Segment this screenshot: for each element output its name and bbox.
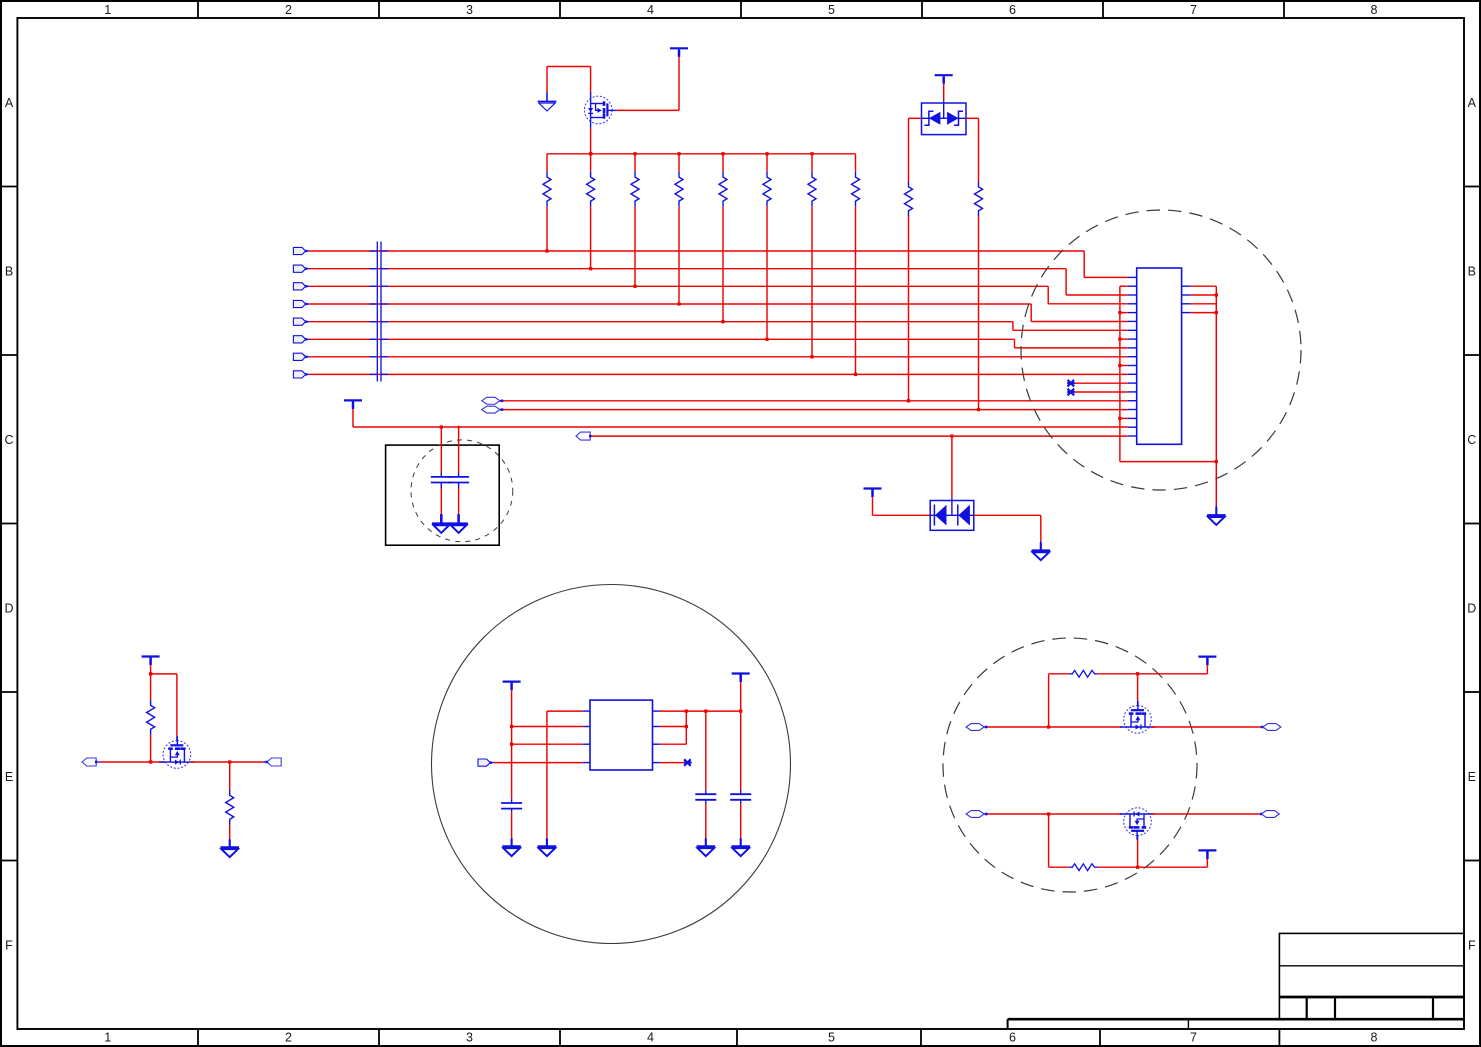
node bus-R2 junction [589,152,592,155]
wire VCC6 down to C3 [511,690,513,803]
node R10-net10 junction [977,408,980,411]
node out-a junction [685,709,688,712]
node Q4gate junction [1136,866,1139,869]
wire net8 P8 to U1 [309,373,1128,375]
wire Q4 gate down [1137,835,1139,867]
node tie junction [685,725,688,728]
wire net12 N3 to U1 [591,435,1128,437]
ic U1 left pins [1128,277,1137,436]
ground GND2 [432,514,451,533]
no-connect U2 pin8 [660,759,692,766]
node VCC6-pin3 junction [510,743,513,746]
connector N7 [1261,811,1279,818]
node Q1-bus junction [589,152,592,155]
wire U2 pin1 to ground [547,711,583,846]
wire N6 branch down [1048,814,1050,867]
wire U2 pin3 to VCC6 [512,743,583,745]
capacitor C3 [501,803,522,809]
ic U1 right pins [1182,286,1191,312]
node VCC5 junction [149,672,152,675]
svg-text:A: A [5,96,14,110]
svg-text:B: B [5,264,13,278]
ground GND4 [1032,542,1051,560]
wire Q4 to N7 [1151,813,1262,816]
svg-text:1: 1 [104,1031,111,1045]
power symbol VCC1 [670,48,688,57]
resistor R1 [543,154,551,251]
connector N1 [482,397,500,404]
svg-text:7: 7 [1190,3,1197,17]
detail circle U1 [1021,210,1301,490]
resistor R10 [975,182,983,410]
wire D2 to ground [974,515,1041,545]
ground GND3 [449,514,468,533]
connector N3 [576,432,590,440]
node R2-net2 junction [589,267,592,270]
wire Q4net to VCC9 [1138,859,1208,867]
node bus-R4 junction [677,152,680,155]
wire U1 ground bus [1120,286,1216,461]
wire net1 P1 to U1 [309,251,1128,277]
capacitor C5 [730,794,751,846]
resistor R8 [852,154,860,375]
resistor R2 [587,154,595,269]
power symbol VCC6 [503,682,521,691]
capacitor C1 [431,427,452,515]
tvs diode D2 [930,501,974,531]
connector P10 [267,758,281,766]
wire U2 pin6 pin7 tie [660,711,686,744]
wire Q1 drain to ground net [547,67,591,94]
svg-text:D: D [1467,601,1476,615]
node R8-net8 junction [854,373,857,376]
wire Q2 to P10 [191,761,267,763]
wire P11 to U2 pin4 [494,762,583,764]
wire R13 to Q3 gate [1137,674,1139,706]
detail circle U2 [432,585,791,944]
resistor R5 [719,154,727,322]
node VCC6-pin2 junction [510,725,513,728]
power symbol VCC7 [732,674,750,683]
wire VCC5 to Q2 gate [151,674,177,741]
svg-text:F: F [1468,938,1476,952]
transistor Q1 [584,92,616,128]
resistor R4 [675,154,683,304]
wire net12 to D2 top [951,436,953,500]
node rightnet junction c [1215,460,1218,463]
wire net9 N1 to U1 [500,400,1128,403]
wire net2 P2 to U1 [309,269,1128,295]
connector N5 [1263,724,1281,731]
wire U2 pin2 to VCC6 [512,726,583,728]
node rightnet junction a [1215,293,1218,296]
node rightnet junction b [1215,311,1218,314]
node bus-R3 junction [633,152,636,155]
node net12-D2 junction [950,434,953,437]
svg-text:7: 7 [1190,1031,1197,1045]
connector P8 [293,371,305,378]
svg-text:1: 1 [104,3,111,17]
connector P3 [293,283,305,290]
ground GND8 [538,838,557,856]
node bus-R5 junction [721,152,724,155]
node bus-R7 junction [810,152,813,155]
connector P7 [293,353,305,360]
resistor R12 [226,762,234,847]
svg-text:B: B [1468,264,1476,278]
ground GND7 [502,838,521,856]
wire VCC8 to Q3 gate net [1138,665,1208,674]
node R9-net9 junction [907,399,910,402]
svg-text:C: C [1467,433,1476,447]
connector N2 [482,406,500,413]
power symbol VCC8 [1198,657,1216,666]
connector P9 [82,758,96,766]
svg-text:A: A [1468,96,1477,110]
resistor R9 [905,182,913,401]
wire VCC1 to Q1 gate [617,57,680,111]
ground GND6 [220,839,239,857]
svg-text:4: 4 [647,3,654,17]
power symbol VCC3 [344,400,362,409]
wire Q1 source to resistor bus [590,128,592,154]
node N4-R13 junction [1047,725,1050,728]
node R4-net4 junction [677,302,680,305]
svg-text:2: 2 [285,1031,292,1045]
node Q3gate junction [1136,672,1139,675]
wire Q3 to N5 [1151,726,1263,729]
resistor R3 [631,154,639,286]
node R1-net1 junction [545,249,548,252]
node VCC3net-C2 junction [457,426,459,428]
node VCC3net-C1 junction [440,425,443,428]
svg-text:D: D [4,601,13,615]
resistor R11 [147,674,155,762]
wire P9 to Q2 [98,761,165,763]
node bus-R6 junction [765,152,768,155]
capacitor box outline [386,445,500,545]
connector P2 [293,265,305,272]
svg-text:8: 8 [1371,1031,1378,1045]
wire to GND5 [1215,462,1217,510]
connector P4 [293,300,305,307]
connector P11 [478,759,490,766]
power symbol VCC9 [1198,850,1216,859]
wire VCC5 to node [150,665,152,674]
wire net4 P4 to U1 [309,304,1128,322]
node gndbus-pin5 junction [1118,311,1121,314]
node out-b junction [704,709,707,712]
svg-text:E: E [1468,770,1476,784]
node gndbus-pin8 junction [1118,337,1121,340]
node R7-net7 junction [810,355,813,358]
no-connect U1 pin14 [1067,389,1128,396]
svg-text:E: E [5,770,13,784]
svg-text:8: 8 [1371,3,1378,17]
wire D1 left to R9 [909,118,922,181]
wire N6 to Q4 [984,813,1122,816]
node gndbus-pin11 junction [1118,364,1121,367]
wire U1 right pins to ground [1191,286,1217,461]
resistor R13 [1049,670,1138,727]
wire resistor bus [547,153,856,155]
wire VCC4 to D2 [873,497,931,515]
wire net3 P3 to U1 [309,286,1128,304]
svg-text:3: 3 [466,3,473,17]
wire U2 pin5 out [660,710,741,712]
ground GND9 [697,838,716,856]
ground GND1 [538,92,557,111]
wire VCC2 to D1 [943,84,945,103]
svg-text:5: 5 [828,3,835,17]
wire N4 to Q3 [984,726,1122,729]
ground GND5 [1207,507,1226,525]
connector P6 [293,336,305,343]
connector N6 [966,811,984,818]
detail circle Q3Q4 [943,638,1197,892]
power symbol VCC2 [935,75,953,84]
tvs diode D1 [922,103,967,135]
node N6-R14 junction [1047,812,1050,815]
node R3-net3 junction [633,285,636,288]
resistor R7 [808,154,816,357]
resistor R6 [763,154,771,339]
svg-text:4: 4 [647,1031,654,1045]
ground GND10 [731,838,750,856]
capacitor C2 [448,427,469,515]
wire net7 P7 to U1 [309,356,1128,358]
ic U1 [1137,268,1182,444]
ic U2 right pins [653,711,660,763]
wire C3 to ground [511,809,513,846]
node gndbus-pin17 junction [1118,417,1121,420]
wire net6 P6 to U1 [309,339,1128,348]
svg-text:6: 6 [1009,3,1016,17]
connector N4 [966,724,984,731]
wire net5 P5 to U1 [309,322,1128,331]
wire D1 right to R10 [966,118,979,181]
node Q2-R12 junction [228,760,231,763]
connector P5 [293,318,305,325]
svg-text:C: C [4,433,13,447]
connector P1 [293,247,305,254]
power symbol VCC4 [864,489,882,498]
no-connect U1 pin13 [1067,380,1128,387]
power symbol VCC5 [142,657,160,666]
wire VCC3 to U1 pin18 [353,409,1128,427]
wire VCC7 to C5 [740,682,742,794]
svg-text:3: 3 [466,1031,473,1045]
node out-c junction [739,709,742,712]
svg-text:2: 2 [285,3,292,17]
svg-text:5: 5 [828,1031,835,1045]
svg-text:6: 6 [1009,1031,1016,1045]
wire net10 N2 to U1 [500,408,1128,411]
wire R14 left lead [1049,866,1070,868]
transistor Q3 [1120,701,1156,733]
node R6-net6 junction [765,338,768,341]
capacitor C4 [695,711,716,846]
transistor Q2 [159,736,195,768]
node R5-net5 junction [721,320,724,323]
transistor Q4 [1120,808,1156,840]
resistor R14 [1069,864,1137,871]
svg-text:F: F [5,938,13,952]
bus crossing [370,242,388,382]
node R11-net junction [149,760,152,763]
ic U2 [590,700,653,770]
ic U2 left pins [583,711,590,763]
detail circle capbox [411,440,513,542]
